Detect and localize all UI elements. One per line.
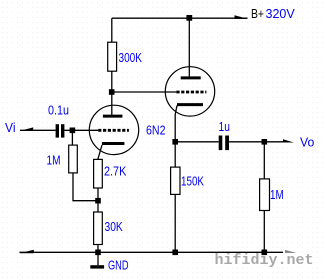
svg-text:1M: 1M bbox=[270, 187, 284, 202]
svg-text:1M: 1M bbox=[47, 152, 61, 167]
svg-text:30K: 30K bbox=[105, 219, 124, 234]
svg-text:300K: 300K bbox=[119, 50, 143, 65]
svg-text:2.7K: 2.7K bbox=[104, 163, 127, 178]
svg-text:6N2: 6N2 bbox=[146, 122, 166, 137]
svg-text:GND: GND bbox=[108, 258, 129, 273]
svg-text:0.1u: 0.1u bbox=[48, 103, 69, 118]
svg-text:320V: 320V bbox=[266, 6, 296, 21]
svg-text:1u: 1u bbox=[219, 119, 230, 134]
svg-text:B+: B+ bbox=[251, 6, 264, 21]
svg-text:Vi: Vi bbox=[5, 120, 16, 135]
svg-text:Vo: Vo bbox=[300, 135, 314, 150]
svg-text:150K: 150K bbox=[181, 173, 204, 188]
